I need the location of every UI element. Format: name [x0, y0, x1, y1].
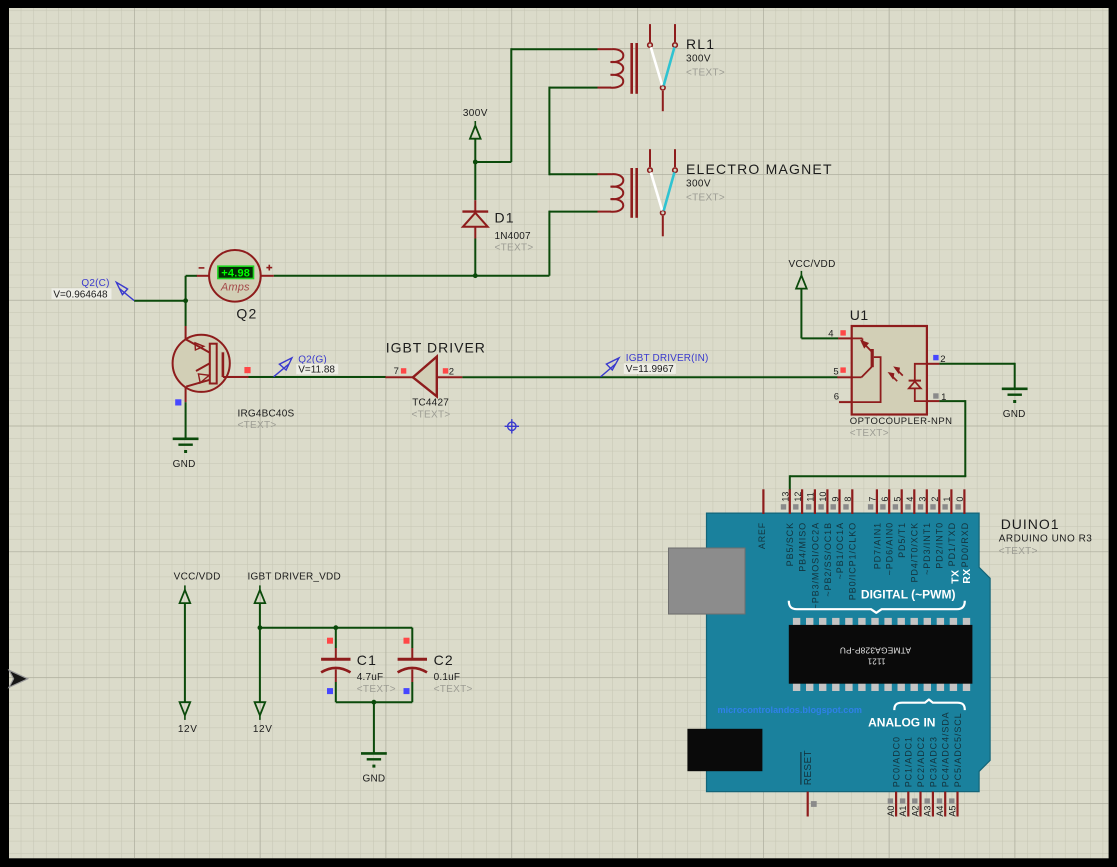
- svg-text:6: 6: [880, 497, 890, 502]
- svg-text:12: 12: [793, 492, 803, 502]
- svg-text:A1: A1: [898, 806, 908, 817]
- svg-text:<TEXT>: <TEXT>: [238, 420, 277, 431]
- blue square C2 bottom: [404, 688, 410, 694]
- svg-text:PC3/ADC3: PC3/ADC3: [928, 736, 938, 787]
- svg-text:7: 7: [394, 366, 399, 377]
- arduino digital pin stubs: [763, 489, 964, 514]
- relay RL1: [598, 24, 726, 111]
- value ARDUINO UNO R3: [999, 534, 1093, 545]
- svg-text:5: 5: [833, 367, 838, 378]
- value C1 4.7uF: [357, 672, 384, 683]
- label C2 TEXT: [434, 684, 473, 695]
- value V=0.964648: [52, 288, 112, 300]
- red square C1 top: [327, 638, 333, 644]
- svg-text:A4: A4: [935, 806, 945, 817]
- svg-text:A5: A5: [947, 806, 957, 817]
- svg-text:A2: A2: [910, 806, 920, 817]
- svg-text:ARDUINO UNO R3: ARDUINO UNO R3: [999, 534, 1093, 545]
- usb connector: [669, 548, 746, 614]
- svg-text:RESET: RESET: [803, 750, 814, 785]
- svg-text:DIGITAL (~PWM): DIGITAL (~PWM): [861, 588, 956, 602]
- svg-text:V=11.9967: V=11.9967: [626, 364, 674, 375]
- wire U1 pin1 to DUINO1 pin13: [790, 400, 967, 490]
- label C1 TEXT: [357, 684, 396, 695]
- svg-text:C2: C2: [434, 652, 454, 668]
- label ANALOG IN: [868, 716, 935, 730]
- blue square Q2 emitter pin: [175, 399, 181, 405]
- value TC4427: [412, 397, 449, 408]
- capacitor C2: [398, 628, 427, 703]
- svg-text:11: 11: [806, 492, 816, 501]
- svg-text:ANALOG IN: ANALOG IN: [868, 716, 935, 730]
- value IRG4BC40S: [238, 408, 295, 419]
- svg-text:1121: 1121: [867, 657, 885, 666]
- pin 1 label (U1): [941, 392, 946, 403]
- svg-text:VCC/VDD: VCC/VDD: [789, 259, 836, 270]
- svg-text:0.1uF: 0.1uF: [434, 672, 461, 683]
- svg-text:300V: 300V: [463, 108, 488, 119]
- wire Q2 emitter to ground: [185, 402, 187, 438]
- optocoupler U1 body: [850, 307, 927, 414]
- svg-text:<TEXT>: <TEXT>: [850, 428, 889, 439]
- ammeter Q2 amps: [196, 250, 273, 302]
- pin 2 label (driver): [449, 367, 454, 378]
- digital brace: [789, 601, 965, 613]
- svg-text:V=0.964648: V=0.964648: [53, 289, 108, 300]
- opto internal LED: [909, 364, 927, 401]
- wire driver out to U1 pin5: [462, 376, 837, 378]
- label U1 TEXT: [850, 428, 889, 439]
- wire U1 pin2 to ground: [939, 363, 1014, 389]
- svg-text:Q2: Q2: [236, 305, 257, 321]
- svg-text:ELECTRO MAGNET: ELECTRO MAGNET: [686, 161, 833, 177]
- wire junction down to Q2: [185, 301, 187, 326]
- node rail junction: [258, 625, 263, 630]
- value OPTOCOUPLER-NPN: [850, 416, 953, 427]
- pin stub U1 pin4: [838, 337, 852, 339]
- gray square U1 pin1: [933, 393, 938, 398]
- svg-text:~PB2/SS/OC1B: ~PB2/SS/OC1B: [823, 522, 833, 597]
- label probe IGBT DRIVER(IN): [626, 353, 709, 364]
- wire capacitor bottoms: [336, 701, 413, 703]
- label DUINO1: [1001, 516, 1060, 532]
- svg-text:PB4/MISO: PB4/MISO: [798, 522, 808, 572]
- origin marker: [505, 419, 519, 433]
- svg-text:10: 10: [818, 492, 828, 502]
- svg-text:IGBT DRIVER: IGBT DRIVER: [386, 339, 486, 355]
- red square U1 pin4: [840, 330, 845, 335]
- label probe Q2(G): [298, 354, 327, 365]
- svg-text:PD1/TXD: PD1/TXD: [947, 522, 957, 566]
- pin 7 label: [394, 366, 399, 377]
- svg-text:13: 13: [781, 492, 791, 502]
- ic ATMEGA328P pads: [793, 618, 970, 691]
- svg-text:PB5/SCK: PB5/SCK: [785, 522, 795, 566]
- svg-text:TC4427: TC4427: [412, 397, 449, 408]
- pin 2 label (U1): [940, 354, 945, 365]
- svg-text:PD7/AIN1: PD7/AIN1: [872, 522, 882, 569]
- svg-text:<TEXT>: <TEXT>: [495, 243, 534, 254]
- svg-text:AREF: AREF: [757, 522, 767, 549]
- svg-text:GND: GND: [1003, 409, 1026, 420]
- power 300V: [463, 108, 488, 163]
- pin stub U1 pin5: [837, 376, 851, 378]
- wire RL1 bottom to EM top: [549, 87, 597, 176]
- svg-text:Amps: Amps: [220, 282, 250, 294]
- svg-text:PC4/ADC4/SDA: PC4/ADC4/SDA: [941, 711, 951, 787]
- svg-text:~PB1/OC1A: ~PB1/OC1A: [835, 522, 845, 579]
- buffer TC4427: [385, 357, 462, 397]
- svg-text:Q2(C): Q2(C): [81, 278, 109, 289]
- svg-text:U1: U1: [850, 307, 869, 323]
- svg-text:~PD3/INT1: ~PD3/INT1: [922, 522, 932, 575]
- svg-text:V=11.88: V=11.88: [298, 364, 335, 375]
- svg-text:5: 5: [893, 497, 903, 502]
- svg-text:1N4007: 1N4007: [495, 231, 531, 242]
- label C1: [357, 652, 377, 668]
- svg-text:12V: 12V: [253, 724, 273, 735]
- svg-text:GND: GND: [362, 773, 385, 784]
- svg-text:A3: A3: [923, 806, 933, 817]
- probe Q2(C): [116, 282, 134, 300]
- svg-text:<TEXT>: <TEXT>: [686, 193, 725, 204]
- pin 4 label: [828, 328, 833, 339]
- label RESET: [801, 750, 814, 785]
- svg-text:PC0/ADC0: PC0/ADC0: [892, 736, 902, 787]
- svg-text:4: 4: [828, 328, 833, 339]
- value V=11.88: [296, 364, 338, 376]
- svg-text:300V: 300V: [686, 54, 711, 65]
- value 1N4007: [495, 231, 531, 242]
- label DIGITAL (~PWM): [861, 588, 956, 602]
- svg-text:DUINO1: DUINO1: [1001, 516, 1060, 532]
- svg-text:RL1: RL1: [686, 36, 715, 52]
- wire VCC to U1 pin4: [801, 288, 838, 338]
- svg-text:2: 2: [930, 497, 940, 502]
- ground U1 pin2: [1002, 389, 1028, 420]
- probe IGBT DRIVER(IN): [601, 358, 620, 377]
- svg-text:PB0/ICP1/CLKO: PB0/ICP1/CLKO: [848, 522, 858, 600]
- reset pin: [808, 792, 817, 817]
- red square Q2 gate pin: [244, 367, 250, 373]
- svg-text:PD4/T0/XCK: PD4/T0/XCK: [910, 522, 920, 583]
- node 300V junction: [473, 160, 478, 165]
- svg-text:<TEXT>: <TEXT>: [357, 684, 396, 695]
- svg-text:IGBT DRIVER(IN): IGBT DRIVER(IN): [626, 353, 709, 364]
- svg-text:PC2/ADC2: PC2/ADC2: [916, 736, 926, 787]
- power VCC/VDD rail: [174, 571, 221, 735]
- svg-text:1: 1: [942, 497, 952, 502]
- svg-text:12V: 12V: [178, 724, 198, 735]
- wire to bottom ground: [373, 702, 375, 752]
- svg-text:300V: 300V: [686, 179, 711, 190]
- svg-text:4.7uF: 4.7uF: [357, 672, 384, 683]
- arduino digital pin numbers: [781, 492, 966, 502]
- red square U1 pin5: [840, 367, 845, 372]
- svg-text:<TEXT>: <TEXT>: [686, 68, 725, 79]
- analog brace: [894, 700, 965, 711]
- diode D1: [462, 162, 488, 276]
- label IGBT DRIVER: [386, 339, 486, 355]
- label C2: [434, 652, 454, 668]
- ic ATMEGA328P label: [840, 646, 911, 666]
- opto internal phototransistor: [852, 338, 881, 402]
- wire EM bottom to main rail: [274, 211, 598, 276]
- label probe Q2(C): [81, 278, 109, 289]
- svg-text:VCC/VDD: VCC/VDD: [174, 571, 221, 582]
- arduino analog pin squares: [888, 798, 955, 803]
- opto light arrows: [889, 367, 903, 381]
- svg-text:<TEXT>: <TEXT>: [999, 546, 1038, 557]
- cursor arrow: [9, 670, 28, 687]
- label Q2 TEXT: [238, 420, 277, 431]
- pin 6 label: [834, 392, 839, 403]
- ground Q2 emitter: [173, 439, 199, 470]
- svg-text:IRG4BC40S: IRG4BC40S: [238, 408, 295, 419]
- transistor Q2 IRG4BC40S: [173, 326, 249, 402]
- svg-text:0: 0: [955, 497, 965, 502]
- capacitor C1: [321, 628, 350, 703]
- wire Q2 gate to driver: [249, 376, 386, 378]
- svg-text:PC5/ADC5/SCL: PC5/ADC5/SCL: [953, 712, 963, 787]
- svg-text:TX: TX: [950, 570, 962, 584]
- svg-text:PD0/RXD: PD0/RXD: [960, 522, 970, 567]
- svg-text:<TEXT>: <TEXT>: [412, 409, 451, 420]
- label TC4427 TEXT: [412, 409, 451, 420]
- blue square C1 bottom: [327, 688, 333, 694]
- svg-text:<TEXT>: <TEXT>: [434, 684, 473, 695]
- label microcontrolandos: [718, 705, 863, 715]
- svg-text:OPTOCOUPLER-NPN: OPTOCOUPLER-NPN: [850, 416, 953, 427]
- red square C2 top: [404, 638, 410, 644]
- svg-text:4: 4: [905, 497, 915, 502]
- red square driver pin7: [401, 368, 406, 373]
- node cap gnd junction: [372, 700, 377, 705]
- power VCC/VDD (opto): [789, 259, 836, 288]
- relay ELECTRO MAGNET: [598, 149, 833, 236]
- svg-text:3: 3: [918, 497, 928, 502]
- node D1 bottom junction: [473, 273, 478, 278]
- arduino digital pin labels: [757, 522, 970, 609]
- svg-text:D1: D1: [495, 210, 515, 226]
- svg-text:RX: RX: [961, 569, 973, 584]
- ic ATMEGA328P body: [789, 625, 973, 684]
- value C2 0.1uF: [434, 672, 461, 683]
- svg-text:7: 7: [868, 497, 878, 502]
- label DUINO1 TEXT: [999, 546, 1038, 557]
- svg-text:ATMEGA328P-PU: ATMEGA328P-PU: [840, 646, 911, 656]
- power IGBT DRIVER_VDD rail: [248, 571, 341, 735]
- blue square U1 pin2: [933, 355, 938, 360]
- node Q2 collector junction: [183, 298, 188, 303]
- svg-text:C1: C1: [357, 652, 377, 668]
- pin stub U1 pin1: [927, 400, 940, 402]
- arduino analog pin labels: [892, 711, 963, 787]
- wire RL1 top coil to 300V node: [475, 48, 597, 162]
- wire rail to capacitors: [260, 627, 412, 629]
- svg-text:~PD6/AIN0: ~PD6/AIN0: [885, 522, 895, 575]
- red square driver pin2: [443, 368, 448, 373]
- svg-text:2: 2: [449, 367, 454, 378]
- svg-text:PD2/INT0: PD2/INT0: [935, 522, 945, 569]
- arduino analog pin numbers: [886, 806, 957, 817]
- svg-text:microcontrolandos.blogspot.com: microcontrolandos.blogspot.com: [718, 705, 863, 715]
- svg-text:+4.98: +4.98: [221, 267, 250, 279]
- svg-text:6: 6: [834, 392, 839, 403]
- arduino digital pin squares: [781, 504, 961, 509]
- pin stub U1 pin6: [839, 401, 852, 403]
- label D1 TEXT: [495, 243, 534, 254]
- ground capacitors: [361, 753, 387, 784]
- svg-text:9: 9: [830, 497, 840, 502]
- svg-text:8: 8: [843, 497, 853, 502]
- value V=11.9967: [624, 363, 676, 375]
- svg-text:PC1/ADC1: PC1/ADC1: [904, 736, 914, 787]
- wire ammeter to collector: [186, 276, 197, 301]
- label Q2 (ammeter): [236, 305, 257, 321]
- svg-text:PD5/T1: PD5/T1: [897, 522, 907, 558]
- node C1 top junction: [333, 625, 338, 630]
- arduino analog pin stubs: [896, 792, 957, 817]
- label TX RX: [950, 569, 974, 584]
- arduino DUINO1 board: [707, 513, 991, 792]
- label D1: [495, 210, 515, 226]
- svg-text:GND: GND: [173, 459, 196, 470]
- probe Q2(G): [274, 358, 292, 377]
- wire probe stub QC: [134, 300, 186, 302]
- pin 5 label: [833, 367, 838, 378]
- pin stub U1 pin2: [927, 363, 940, 365]
- svg-text:A0: A0: [886, 806, 896, 817]
- power jack: [687, 729, 762, 771]
- svg-text:~PB3/MOSI/OC2A: ~PB3/MOSI/OC2A: [810, 522, 820, 609]
- svg-text:IGBT DRIVER_VDD: IGBT DRIVER_VDD: [248, 571, 341, 582]
